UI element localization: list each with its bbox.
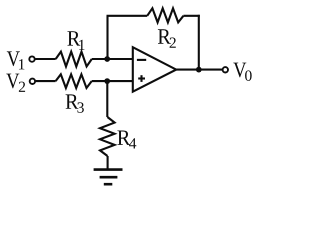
op-amp U1 <box>133 47 176 91</box>
wire feedback top left <box>107 15 148 17</box>
terminal V2 <box>30 79 35 84</box>
wire feedback vertical right <box>198 15 200 70</box>
wire V1 to R1 <box>35 58 56 60</box>
wire V2 to R3 <box>36 80 56 82</box>
wire R1 to op-amp minus input <box>92 58 133 60</box>
node B junction dot <box>104 78 110 84</box>
resistor R2 <box>147 8 183 22</box>
label V1 <box>7 51 25 69</box>
resistor R3 <box>56 74 92 88</box>
op-amp minus sign <box>137 59 146 61</box>
label R1 <box>67 31 84 50</box>
wire feedback vertical left <box>106 16 108 59</box>
wire output <box>176 69 222 71</box>
resistor R1 <box>56 52 92 67</box>
label R2 <box>158 29 176 48</box>
wire R3 to op-amp plus input <box>92 80 133 82</box>
wire R4 top <box>106 81 108 117</box>
wire feedback top right <box>183 15 199 17</box>
label V2 <box>6 74 25 92</box>
output node junction dot <box>196 67 202 73</box>
wire R4 to ground <box>107 156 109 170</box>
terminal V0 <box>223 67 228 72</box>
label R3 <box>66 94 84 112</box>
resistor R4 <box>100 117 115 156</box>
node A junction dot <box>104 56 110 62</box>
terminal V1 <box>29 56 34 61</box>
label R4 <box>117 130 136 148</box>
ground <box>94 168 123 171</box>
label V0 <box>233 63 251 81</box>
op-amp plus sign <box>138 77 145 79</box>
